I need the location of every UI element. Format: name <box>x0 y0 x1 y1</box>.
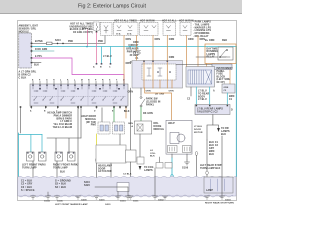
svg-text:OF I/P): OF I/P) <box>217 82 225 84</box>
J1 stub below <box>190 87 192 96</box>
svg-text:LT BLU: LT BLU <box>194 126 203 128</box>
switch S1 pin labels <box>32 79 125 81</box>
fuse box A <box>94 22 100 31</box>
svg-text:HOT IN RUN: HOT IN RUN <box>179 21 194 23</box>
switch S1 bottom pin squares <box>20 106 127 108</box>
wire W1 pink feed <box>32 42 105 44</box>
svg-text:LT BLU: LT BLU <box>198 91 207 93</box>
fuse box E <box>163 23 176 36</box>
svg-text:DAYTIME: DAYTIME <box>207 48 218 51</box>
svg-text:HOT AT ALL: HOT AT ALL <box>162 20 177 23</box>
svg-text:DK GRN: DK GRN <box>143 113 153 115</box>
inline connector box <box>137 157 144 164</box>
relay K3 inner 2 <box>105 125 108 131</box>
under-block labels <box>146 91 174 96</box>
lamp ground drop 2b <box>56 168 58 196</box>
pink riser x87 <box>87 30 89 47</box>
svg-text:PANEL: PANEL <box>217 70 226 73</box>
svg-text:BLK: BLK <box>221 134 226 136</box>
yellow cont dark <box>96 162 98 196</box>
switch S1 inner top ticks <box>33 87 124 90</box>
gray box below K2 <box>212 64 232 70</box>
relay K2 inner <box>218 47 233 60</box>
svg-text:BLOCK: BLOCK <box>217 76 226 78</box>
svg-text:S420: S420 <box>84 184 90 187</box>
arrow right <box>217 128 220 132</box>
svg-text:C2 = GRY: C2 = GRY <box>21 184 33 186</box>
wire S1 left down <box>20 108 22 133</box>
svg-text:MODULE: MODULE <box>85 119 96 121</box>
oval connector right <box>195 152 198 156</box>
lamp L2 <box>39 152 47 161</box>
svg-text:BODY: BODY <box>198 96 205 98</box>
svg-text:HDLP: HDLP <box>168 123 175 125</box>
svg-text:LEFT FRONT MARKER LAMP: LEFT FRONT MARKER LAMP <box>55 203 88 206</box>
cyan lamp drops <box>31 135 42 153</box>
park switch S2 <box>140 97 142 99</box>
svg-text:- PARK LAMPS: - PARK LAMPS <box>193 21 211 24</box>
ladder pins <box>188 70 212 84</box>
svg-text:ORN: ORN <box>126 39 132 41</box>
fuse box B <box>101 23 113 36</box>
svg-text:B PNK: B PNK <box>35 41 43 43</box>
svg-text:D: D <box>231 110 233 112</box>
svg-text:A: A <box>213 90 215 93</box>
wire relay feed <box>101 108 103 122</box>
fuse FD symbol <box>144 26 156 31</box>
svg-text:DIODE: DIODE <box>154 126 162 128</box>
svg-text:TURN LAMP: TURN LAMP <box>53 166 68 169</box>
box A left labels <box>128 123 133 128</box>
svg-text:TO REAR: TO REAR <box>198 92 209 95</box>
headlamp door box M2 <box>96 145 126 163</box>
wire W6 black stub <box>32 62 41 64</box>
relay K3 inner 1 <box>100 125 103 131</box>
svg-text:E PPL: E PPL <box>35 56 43 58</box>
band notes text <box>21 181 90 193</box>
svg-text:- LICENSE LPS: - LICENSE LPS <box>193 30 211 32</box>
fuse FA symbol <box>97 24 99 31</box>
riser labels <box>126 39 206 65</box>
actuator box B <box>166 120 192 154</box>
svg-text:LT GRN C: LT GRN C <box>60 121 72 123</box>
svg-text:ORN: ORN <box>169 39 175 41</box>
svg-text:B+ ORN: B+ ORN <box>205 40 215 42</box>
wire orange stub <box>125 108 127 118</box>
tiny box pair 2 <box>165 163 172 169</box>
notes band <box>18 176 236 196</box>
svg-text:M: M <box>81 79 83 81</box>
svg-text:BLK C1: BLK C1 <box>209 142 219 144</box>
svg-text:BLK: BLK <box>150 156 155 158</box>
wire label block <box>48 112 73 130</box>
orange relay box K2 outline <box>205 44 236 64</box>
pair feed <box>159 157 161 163</box>
svg-text:(LEFT SIDE: (LEFT SIDE <box>217 79 231 81</box>
K2 resistor <box>221 57 226 58</box>
fuse block internal risers <box>144 61 172 89</box>
box B right labels <box>194 126 203 134</box>
svg-text:PNK: PNK <box>98 41 103 43</box>
svg-text:BRN: BRN <box>229 96 235 98</box>
wire W4 magenta <box>32 58 124 84</box>
svg-text:- MARKER LPS: - MARKER LPS <box>193 26 211 29</box>
fuse box C <box>114 23 139 36</box>
svg-text:LT BLU: LT BLU <box>103 56 112 58</box>
oval 207 band crossing <box>206 175 208 196</box>
circuit breaker CB1 <box>133 52 135 54</box>
lamp ground drop 2 <box>56 161 58 165</box>
svg-text:20 A: 20 A <box>127 33 132 36</box>
svg-text:HOT IN RUN: HOT IN RUN <box>140 21 155 23</box>
svg-text:PNK A DIMMER: PNK A DIMMER <box>54 114 73 117</box>
svg-text:S410: S410 <box>84 181 90 184</box>
svg-text:15 A: 15 A <box>116 33 121 36</box>
tiny box pair 1 <box>156 163 163 169</box>
switch S1 dividers <box>58 84 88 106</box>
wire green stub <box>113 108 115 122</box>
K2 stub risers <box>207 64 231 85</box>
M4 top pins <box>196 105 229 107</box>
ground G106 <box>185 160 190 165</box>
svg-text:TURN LAMP BLK: TURN LAMP BLK <box>200 167 221 170</box>
arrow to fog <box>139 166 142 170</box>
underhood note block <box>69 23 93 34</box>
svg-text:ORN: ORN <box>128 123 133 125</box>
fuse FC2 symbol <box>128 26 132 31</box>
headlamp switch S1 <box>30 84 128 106</box>
switch S1 top pin ticks <box>33 81 124 84</box>
ground row labels <box>44 200 234 207</box>
svg-text:HOT AT ALL TIMES: HOT AT ALL TIMES <box>114 20 137 23</box>
switch S1 inner dashed row <box>32 96 126 98</box>
svg-text:RED: RED <box>222 40 227 42</box>
wire box A down <box>139 134 141 157</box>
switch S1 bottom pin labels <box>30 110 126 113</box>
svg-text:BRN: BRN <box>209 151 215 153</box>
relay K1 contact 1 <box>147 68 151 76</box>
connector oval 1 <box>32 165 34 168</box>
svg-text:- TAIL LAMPS: - TAIL LAMPS <box>193 23 210 26</box>
svg-text:S2 = BLK: S2 = BLK <box>55 184 66 186</box>
grounds row <box>31 187 225 199</box>
M2 drop <box>110 163 112 177</box>
lamp L1 <box>27 152 35 161</box>
fuse FF symbol <box>183 26 187 31</box>
IP connector ladder J1 <box>186 67 215 88</box>
orange riser V2b <box>152 36 154 61</box>
fuse box D <box>140 23 159 36</box>
right small box <box>222 84 235 93</box>
svg-text:LEFT REAR STOP/: LEFT REAR STOP/ <box>200 164 222 167</box>
cyan riser c <box>226 93 228 105</box>
svg-text:(CLOSED IN: (CLOSED IN <box>146 101 161 103</box>
svg-text:D DK GRN: D DK GRN <box>35 49 48 51</box>
riser notes <box>198 91 209 102</box>
svg-text:BLK C2: BLK C2 <box>209 145 219 147</box>
wire to door box <box>119 134 121 145</box>
fuse box F <box>180 23 191 36</box>
DRL module U1 <box>19 33 32 68</box>
title bar <box>0 0 242 14</box>
svg-text:S3 = BLK: S3 = BLK <box>55 187 66 189</box>
svg-text:TAIL/STOP C1 C2: TAIL/STOP C1 C2 <box>197 111 218 114</box>
node riser to fuse B2 <box>104 36 106 44</box>
svg-text:TO FOG: TO FOG <box>144 167 154 169</box>
svg-text:TAN E LO BEAM: TAN E LO BEAM <box>53 126 73 129</box>
svg-text:PWR ACC: PWR ACC <box>127 51 139 54</box>
svg-text:GRY: GRY <box>209 148 215 150</box>
switch riser text block <box>130 62 140 64</box>
svg-text:G201: G201 <box>105 204 111 206</box>
stacked labels <box>209 142 219 156</box>
cyan drop center <box>171 158 173 177</box>
svg-text:ORN: ORN <box>133 42 139 44</box>
fuse FC1 symbol <box>117 26 121 31</box>
right band module M5 <box>204 177 233 193</box>
svg-text:G106: G106 <box>182 168 189 170</box>
svg-text:G105: G105 <box>57 201 63 203</box>
box A element <box>137 124 143 131</box>
svg-text:DRL: DRL <box>154 123 160 125</box>
svg-text:G302: G302 <box>158 200 164 202</box>
splice S211 <box>62 43 64 45</box>
arrow note <box>221 128 230 136</box>
cyan riser b <box>209 87 211 105</box>
relay K4 inner 1 <box>115 125 118 131</box>
svg-text:Fig 2: Exterior Lamps Circuit: Fig 2: Exterior Lamps Circuit <box>78 4 147 10</box>
svg-text:SENSOR / DRL: SENSOR / DRL <box>19 28 37 30</box>
svg-text:C1 = BLK: C1 = BLK <box>21 181 32 183</box>
svg-text:OF ENG COMPT): OF ENG COMPT) <box>73 32 93 34</box>
drop end labels <box>93 66 111 69</box>
svg-text:HEADLAMP: HEADLAMP <box>98 165 112 168</box>
left drop to band <box>206 140 208 171</box>
svg-text:BLK: BLK <box>124 111 129 113</box>
DRL relay K1 dashed <box>142 64 176 80</box>
svg-text:ORN: ORN <box>155 39 161 41</box>
pin below fuse A <box>96 31 98 33</box>
cyan lamp feed horizontal <box>18 134 42 136</box>
ladder note block <box>217 68 234 84</box>
schematic frame <box>18 21 237 201</box>
svg-text:PARK): PARK) <box>146 103 154 106</box>
orange riser V1 <box>123 36 125 85</box>
svg-text:TO RR: TO RR <box>221 128 229 130</box>
coil label block <box>150 150 156 158</box>
orange riser V2 bottom <box>136 56 138 61</box>
svg-text:LAMPS: LAMPS <box>207 53 216 56</box>
cyan drop pair left <box>102 47 111 63</box>
svg-text:LO: LO <box>150 150 153 152</box>
splice S210 <box>57 43 59 45</box>
svg-text:HOT AT ALL TIMES: HOT AT ALL TIMES <box>70 23 93 26</box>
cyan riser a <box>195 87 197 105</box>
left riser chain <box>130 88 132 150</box>
svg-text:COIL: COIL <box>150 153 156 155</box>
relay K4 dashed <box>113 122 125 134</box>
svg-text:G111: G111 <box>133 201 139 203</box>
K2 feed stubs <box>176 57 218 65</box>
band bus line <box>95 186 128 188</box>
junction dots on trunk <box>86 46 88 48</box>
svg-text:G110: G110 <box>120 201 126 203</box>
svg-text:PARK SW: PARK SW <box>146 98 158 101</box>
IP fuse block B6 <box>132 61 183 89</box>
wire pink riser <box>96 33 98 63</box>
svg-text:G201: G201 <box>99 200 105 202</box>
svg-text:HDLP DOOR: HDLP DOOR <box>81 116 96 118</box>
rear lamp module M4 <box>195 105 230 115</box>
svg-text:INSTRUMENT: INSTRUMENT <box>217 68 234 70</box>
orange riser V2 breaker top <box>136 36 138 51</box>
svg-text:(W/ T93): (W/ T93) <box>86 122 96 124</box>
svg-text:LAMP: LAMP <box>206 189 213 192</box>
svg-text:MODULE: MODULE <box>154 129 165 131</box>
crossing wires to grounds <box>155 136 222 196</box>
wire ground long drop <box>77 108 79 196</box>
svg-text:30 AMP: 30 AMP <box>130 54 139 57</box>
wire coil right down <box>186 154 188 160</box>
svg-text:G104: G104 <box>44 200 50 203</box>
svg-text:G = GROUND: G = GROUND <box>55 181 71 183</box>
relay K4 inner 2 <box>120 125 123 131</box>
band sub box <box>117 183 129 192</box>
svg-text:DOOR: DOOR <box>194 129 201 131</box>
relay box A <box>134 121 151 134</box>
oval connector 207 <box>206 171 209 175</box>
svg-text:LAMPS: LAMPS <box>144 169 153 172</box>
wire lamp bus riser <box>80 108 82 138</box>
M5 pins <box>211 179 225 191</box>
lamp labels <box>22 164 79 174</box>
lamp ground drop 1b <box>32 168 34 196</box>
relay K2 switch <box>220 50 230 57</box>
svg-text:C BLK: C BLK <box>19 77 27 80</box>
svg-text:- DRL RELAY: - DRL RELAY <box>193 35 209 38</box>
svg-text:LAMPS: LAMPS <box>221 130 230 133</box>
coil right <box>183 146 192 153</box>
svg-text:ORN: ORN <box>146 91 151 93</box>
svg-text:ORN: ORN <box>224 87 229 89</box>
svg-text:S = SPLICE: S = SPLICE <box>21 190 35 192</box>
switch S1 bottom ticks <box>31 106 126 109</box>
fuse FB symbol <box>104 26 108 34</box>
svg-text:- I/P DIMMING: - I/P DIMMING <box>193 33 210 35</box>
cyan lamp feed vertical <box>17 133 19 177</box>
low box drop <box>130 162 132 196</box>
small box low <box>126 150 137 162</box>
band bottom scallops <box>19 195 233 197</box>
orange loop wire <box>145 88 172 120</box>
svg-text:ORN: ORN <box>169 91 174 93</box>
wire yellow riser <box>96 134 98 159</box>
wire W2 cyan trunk <box>32 46 236 48</box>
svg-text:ORN: ORN <box>169 57 175 59</box>
svg-text:BREAKER: BREAKER <box>126 47 138 50</box>
svg-text:YEL D HI BEAM: YEL D HI BEAM <box>53 123 72 126</box>
svg-text:C3 = BLU: C3 = BLU <box>21 187 32 189</box>
lamp ground drop 1 <box>32 161 34 165</box>
svg-text:RUNNING: RUNNING <box>207 51 219 53</box>
M2 labels <box>98 165 112 174</box>
wire W3 teal stub <box>32 50 54 52</box>
dark lamp bus <box>47 138 81 152</box>
svg-text:BLK: BLK <box>209 154 214 156</box>
wire green drop <box>140 107 142 121</box>
breaker note block <box>126 42 139 60</box>
svg-text:C2 BLK: C2 BLK <box>123 174 132 176</box>
svg-text:BLK: BLK <box>60 172 65 174</box>
right column notes <box>213 90 235 112</box>
note above band right <box>200 164 222 170</box>
orange riser V5 <box>197 36 199 67</box>
svg-text:AMBIENT LIGHT: AMBIENT LIGHT <box>19 25 39 28</box>
svg-text:S210: S210 <box>55 40 61 42</box>
svg-text:BRN B PARK: BRN B PARK <box>57 117 73 120</box>
wire W2 right riser <box>235 47 237 177</box>
relay K1 pins <box>157 71 159 73</box>
drop end pins <box>96 63 112 65</box>
switch S1 contacts <box>34 91 124 103</box>
fuse FE symbol <box>167 26 171 31</box>
svg-text:FUSE: FUSE <box>217 74 224 76</box>
lamp L3 <box>55 152 63 161</box>
svg-text:BLK: BLK <box>34 65 39 67</box>
cyan bump connector <box>171 174 174 177</box>
motor inner rect <box>170 133 179 144</box>
relay K3 dashed <box>98 122 110 134</box>
wire coil left down <box>171 154 173 158</box>
svg-text:LT BLU: LT BLU <box>198 99 207 101</box>
legend note list <box>193 21 211 39</box>
svg-text:DOOR: DOOR <box>98 168 106 170</box>
orange riser V3 <box>166 36 168 61</box>
orange riser V4 <box>186 36 188 67</box>
svg-text:HEADLAMP SWITCH: HEADLAMP SWITCH <box>48 112 73 115</box>
relay note block <box>81 116 96 127</box>
motor M <box>177 134 185 142</box>
svg-text:G303: G303 <box>225 200 231 202</box>
svg-text:RIGHT REAR STOP/TURN: RIGHT REAR STOP/TURN <box>205 202 234 205</box>
switch S1 top pin squares <box>32 85 125 87</box>
svg-text:ACTUATOR: ACTUATOR <box>98 170 112 173</box>
svg-text:PNK: PNK <box>68 41 73 43</box>
connector oval 2 <box>56 165 58 168</box>
svg-text:TURN LAMP: TURN LAMP <box>22 166 37 169</box>
yellow end oval <box>95 158 97 161</box>
svg-text:J: J <box>60 79 61 81</box>
svg-text:S214: S214 <box>82 27 88 30</box>
M4 drop <box>212 115 214 126</box>
svg-text:G200: G200 <box>81 200 87 202</box>
coil left <box>168 146 178 153</box>
svg-text:DK GRN: DK GRN <box>155 94 165 96</box>
oval drop <box>196 155 198 176</box>
svg-text:ORN: ORN <box>188 39 194 41</box>
svg-text:MOTOR: MOTOR <box>194 132 203 134</box>
relay K1 contact 2 <box>158 68 162 76</box>
fuse F9 inline <box>47 42 53 45</box>
fuse block top pins <box>143 61 168 62</box>
lamp L4 <box>68 152 76 161</box>
DRL module pins <box>31 43 33 64</box>
prndl feed <box>140 88 142 96</box>
svg-text:LT BLU REAR LAMPS: LT BLU REAR LAMPS <box>197 108 223 111</box>
svg-text:PNK: PNK <box>91 125 96 127</box>
split bar <box>207 125 219 140</box>
